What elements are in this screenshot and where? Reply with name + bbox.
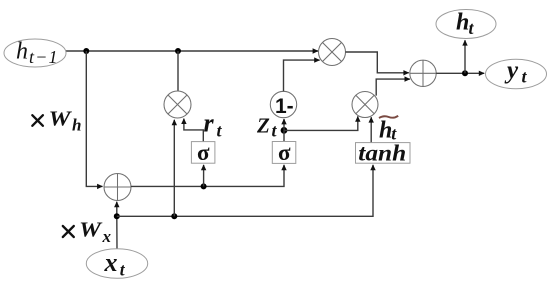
svg-text:W: W [79, 218, 103, 242]
svg-text:y: y [504, 57, 519, 84]
wire: junction E up into sigma1 [203, 165, 205, 187]
label r_t [204, 108, 223, 140]
wire: concat line from left plus gate to sigma boxes [131, 165, 284, 187]
wire: one-minus up and right into z multiply gate [284, 60, 320, 91]
wire: junction D up into reset multiply gate [173, 120, 175, 217]
label candidate h tilde (maroon accent) [379, 116, 398, 118]
svg-text:Z: Z [256, 114, 270, 138]
sigma box 2 [272, 142, 296, 164]
node h_t ellipse [436, 10, 496, 39]
junction A on main line [83, 48, 89, 54]
svg-text:h: h [72, 116, 81, 135]
sigma box 1 [191, 142, 215, 164]
wire: sigma2 top to Zt junction [283, 130, 285, 141]
wire: junction B down to reset multiply gate [177, 51, 179, 91]
svg-text:W: W [49, 107, 73, 131]
label y_t [504, 57, 528, 87]
label h_t [456, 10, 475, 38]
node y_t ellipse [486, 59, 547, 88]
wire: x line right to tanh [117, 165, 373, 216]
svg-text:1-: 1- [275, 95, 294, 118]
junction F [462, 70, 468, 76]
multiply gate (z x h(t-1)) [319, 39, 346, 66]
label candidate h_t [379, 118, 397, 144]
label Z_t [256, 114, 278, 141]
junction D [171, 213, 177, 219]
svg-text:σ: σ [278, 140, 291, 165]
wire: z multiply gate output to right plus gate [346, 52, 409, 73]
label x_t [104, 248, 126, 280]
svg-text:r: r [204, 108, 215, 137]
label W_x [79, 218, 112, 246]
wire: h(t-1) main line to z multiply gate [66, 50, 318, 52]
wire: Zt junction up into one-minus circle [283, 119, 285, 130]
label x W_h : times sign [32, 115, 43, 126]
svg-text:t: t [217, 121, 223, 141]
svg-text:x: x [102, 227, 112, 246]
node h(t-1) ellipse [4, 39, 66, 67]
svg-text:σ: σ [197, 140, 210, 165]
wire: junction F up into h_t [464, 40, 466, 73]
junction E [201, 183, 207, 189]
wire: candidate multiply output up and right into right plus gate [376, 79, 410, 96]
wire: right plus gate output to y_t [436, 72, 484, 74]
node x_t ellipse [86, 249, 147, 279]
tanh box [356, 143, 411, 164]
junction Zt node [281, 127, 288, 134]
one-minus circle [270, 91, 296, 117]
svg-text:x: x [104, 248, 118, 277]
wire: Zt junction right and up into candidate multiply gate [284, 116, 358, 130]
left plus gate [104, 174, 131, 201]
junction C [114, 213, 120, 219]
multiply gate (reset gate x h) [164, 91, 191, 118]
junction B on main line [175, 48, 181, 54]
label h(t-1) [16, 39, 59, 68]
svg-text:h: h [456, 10, 469, 36]
wire: sigma1 output elbow up into reset multiply gate [184, 119, 203, 142]
wire: from junction A down and right into left plus gate [86, 51, 102, 186]
multiply gate (candidate x z) [352, 92, 378, 118]
label W_h [49, 107, 82, 135]
wire: tanh top into candidate multiply gate [370, 117, 372, 142]
right plus gate [410, 60, 436, 86]
svg-text:t−1: t−1 [29, 47, 59, 67]
svg-text:h: h [16, 39, 28, 65]
svg-text:t: t [272, 121, 278, 141]
label x W_x : times sign [63, 226, 74, 237]
wire: x_t up into left plus gate [116, 202, 118, 249]
svg-text:tanh: tanh [358, 140, 406, 165]
